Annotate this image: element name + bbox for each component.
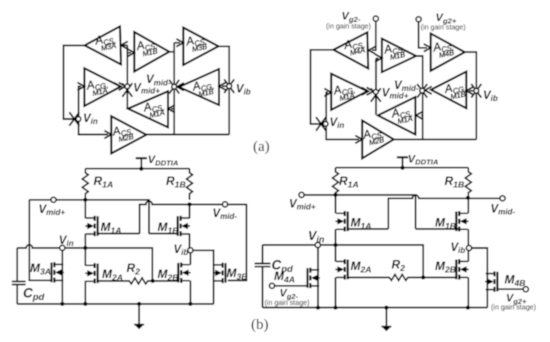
label amp ACS,M1A (142, 98, 167, 120)
supply VDDTIA (136, 158, 147, 168)
gate leads M1A M1B (348, 228, 459, 230)
terminal Vin (60, 245, 65, 250)
terminal Vmid+ (299, 192, 304, 197)
node Vin (323, 122, 328, 127)
junction Vin (83, 246, 87, 250)
node Vmid+ crossing (371, 88, 381, 102)
gnd stem (138, 304, 140, 325)
arrowhead into M3A (121, 42, 127, 49)
junction Vmid+ (334, 193, 338, 197)
amp A_CS,M1B triangle (382, 39, 416, 73)
label amp ACS,M1A (390, 104, 415, 126)
wire M4A output to Vin (311, 50, 334, 124)
M2A gate lead to R2 (348, 276, 386, 278)
junction Vmid- (188, 202, 192, 206)
wire Vmid- vertical (173, 43, 175, 135)
transistor M2B (178, 263, 190, 283)
ground (381, 327, 391, 331)
wire M3A output to Vin (64, 45, 85, 119)
terminal Vg2+ (416, 17, 421, 22)
node Vin crossing (316, 117, 326, 131)
wire Vmid- with hop (388, 195, 468, 229)
M4A gate lead to Vg2- (275, 285, 309, 287)
node Vmid+ crossing (122, 83, 132, 97)
label amp ACS,M2B (111, 122, 136, 144)
M3A leads (61, 248, 63, 304)
svg-text:(in gain stage): (in gain stage) (421, 24, 466, 32)
svg-text:(b): (b) (251, 317, 269, 333)
M2B verticals (467, 250, 469, 307)
gate leads M1A M1B (98, 233, 178, 235)
junction rail M2A (334, 306, 338, 310)
bottom rail (17, 303, 213, 305)
arrowhead into M1Bcg (219, 83, 225, 90)
gnd stem (385, 308, 387, 327)
junction rail M2B (188, 302, 192, 306)
wire M2B output (146, 134, 229, 136)
amp A_CS,M1A triangle (378, 97, 416, 135)
Vmid- wire (468, 197, 500, 199)
Vib wire to M3B (193, 250, 214, 304)
wire Vin drop to M2B input (326, 124, 359, 139)
transistor M2A (335, 259, 347, 279)
junction VDD rail (401, 166, 405, 170)
wire M1B output to Vmid- vertical (416, 56, 423, 139)
label amp ACG,M1A (332, 81, 357, 104)
terminal Vg2- (373, 16, 378, 21)
terminal Vib (466, 245, 471, 250)
resistor R2 (386, 274, 413, 280)
wire Vmid+ (29, 200, 149, 234)
amp A_CS,M1A triangle (128, 91, 168, 127)
transistor M1A (335, 211, 347, 231)
node Vin (76, 117, 81, 122)
amp A_CS,M4A triangle (334, 32, 369, 68)
resistor R1B (465, 168, 471, 199)
Vib wire to M4B (471, 248, 488, 308)
node Vib crossing (224, 79, 234, 93)
terminal circles (269, 192, 528, 292)
M2A verticals (335, 245, 337, 308)
R2 right to M2B gate (153, 280, 178, 282)
label amp ACS,M3A (93, 31, 118, 53)
node Vmid- crossing (417, 84, 427, 98)
M3B gate lead and vertical to Vmid- (228, 204, 247, 281)
label amp ACS,M1B (382, 40, 407, 62)
wire arrow into M1Bcg base from Vib (469, 90, 476, 92)
ground (134, 325, 144, 329)
Vin wire (263, 245, 424, 278)
wire Vin riser to M1A input (79, 86, 81, 119)
arrowhead into M1Acs (168, 105, 174, 112)
label amp ACS,M2B (361, 126, 386, 148)
junction rail M2A (83, 302, 87, 306)
node Vmid- (420, 88, 425, 93)
arrowhead out of M1Bcg apex (177, 83, 183, 90)
M2A gate lead to R2 (98, 280, 126, 282)
label amp ACG,M1B (443, 80, 468, 103)
terminal Vmid+ (51, 197, 56, 202)
wire arrow into M3A (123, 44, 127, 46)
M1B vertical (189, 204, 191, 250)
node Vmid- (172, 84, 177, 89)
wire arrow into M1Bcg base from Vib (222, 85, 229, 87)
amp A_CG,M1A triangle (84, 68, 120, 106)
svg-text:(in gain stage): (in gain stage) (326, 23, 371, 31)
labels (23, 154, 248, 303)
label amp ACS,M1B (135, 37, 160, 59)
transistor M2B (456, 259, 468, 279)
wire M2B output (394, 138, 477, 140)
label amp ACS,M3B (184, 32, 209, 54)
arrowhead into M2B (356, 136, 362, 143)
transistor M3B (213, 263, 225, 283)
arrowhead into M2B (105, 131, 111, 138)
node circles (323, 16, 478, 126)
M2B verticals (189, 253, 191, 304)
bottom rail (263, 307, 488, 309)
transistor M1A (85, 216, 97, 236)
wire Vin drop to M2B input (79, 119, 108, 135)
arrowhead out of M1Bcg apex (425, 87, 431, 94)
wire arrow into M3B (174, 42, 180, 44)
wire arrow into M1Bcs and Vmid+ vertical (376, 58, 379, 114)
junction dots (316, 166, 470, 310)
wire node Vmid+ vertical (126, 45, 128, 108)
arrowhead into M1Bcs (376, 55, 382, 62)
node Vin crossing (69, 112, 79, 126)
arrowhead into M1Bcg (466, 87, 472, 94)
wire arrow into M1B (127, 52, 131, 54)
amp A_CS,M1B triangle (134, 32, 169, 72)
amp A_CS,M4B triangle (431, 34, 465, 71)
node Vmid- crossing (169, 80, 179, 94)
wire Vmid+ (304, 195, 416, 229)
node labels (330, 11, 498, 131)
terminal circles (51, 197, 228, 253)
M2A verticals (84, 248, 86, 304)
VDD rail (336, 167, 469, 169)
label amp ACG,M1B (191, 77, 216, 100)
M4A leads (317, 245, 319, 308)
arrowhead into M4B (424, 44, 430, 51)
arrowhead into M3B (177, 39, 183, 46)
junction Vmid- (466, 196, 470, 200)
junction Vmid+ (83, 198, 87, 202)
resistor R1B (187, 169, 193, 200)
wire arrow into M1A_cs base (171, 108, 174, 110)
terminal Vmid- (500, 196, 505, 201)
wire M1B output to vertical (169, 51, 174, 53)
wire Vmid- with hop (140, 201, 190, 233)
node Vib (227, 84, 232, 89)
transistor M2A (85, 263, 97, 283)
svg-text:(a): (a) (253, 139, 270, 155)
amp A_CG,M1B triangle (431, 72, 466, 109)
junction rail M2B (466, 306, 470, 310)
amp A_CG,M1B triangle (179, 69, 219, 105)
M1A vertical (335, 229, 337, 245)
wire Vg2+ down to M4B input (419, 22, 427, 48)
node Vib crossing (471, 84, 481, 98)
terminal Vg2+ (523, 287, 528, 292)
transistor M1B (456, 211, 468, 231)
node circles (76, 84, 232, 122)
M3A gate vertical (29, 200, 51, 280)
terminal Vg2- (269, 283, 274, 288)
arrowhead into M1Acg (325, 89, 331, 96)
transistor M3A (52, 262, 64, 282)
VDD rail (85, 168, 189, 170)
label amp ACS,M4B (431, 38, 456, 60)
label amp ACS,M4A (342, 36, 367, 58)
Cpd (12, 248, 26, 304)
amp A_CS,M2B triangle (111, 116, 146, 153)
wire Vg2- down to M4A input (372, 21, 376, 50)
amp labels (85, 31, 216, 144)
amp labels (332, 36, 468, 148)
resistor R1A (333, 168, 339, 199)
resistor R2 (126, 278, 153, 284)
terminal Vin (315, 242, 320, 247)
Cpd (255, 245, 271, 308)
junction dots (60, 167, 192, 306)
junction R2 gate M2B (151, 279, 155, 283)
Vmid- wire (190, 203, 247, 205)
arrowhead into M4A (369, 47, 375, 54)
amp A_CS,M3B triangle (183, 28, 218, 65)
node Vmid+ (125, 84, 130, 89)
M1A source down to Vin (84, 234, 86, 248)
R2 right to M2B gate (413, 276, 456, 278)
svg-text:(in gain stage): (in gain stage) (265, 299, 310, 307)
junction rail M3A (60, 302, 64, 306)
M4B gate lead to Vg2+ (498, 288, 523, 290)
resistor R1A (82, 169, 88, 200)
label amp ACG,M1A (85, 76, 110, 99)
transistor M1B (178, 216, 190, 236)
amp A_CS,M3A triangle (85, 26, 121, 64)
junction VDD rail (139, 167, 143, 171)
node Vmid+ (373, 90, 378, 95)
arrowhead into M1B (128, 49, 134, 56)
junction rail ground (137, 302, 141, 306)
junction rail M4A (316, 306, 320, 310)
labels (272, 154, 527, 306)
arrowhead into M1Acg (78, 83, 84, 90)
amp A_CG,M1A triangle (331, 74, 367, 110)
wire M4B output to Vib (465, 52, 477, 139)
double chevrons into Vmid+ (114, 83, 120, 90)
terminal Vib (188, 248, 193, 253)
node Vib (474, 88, 479, 93)
transistor M4B (485, 271, 497, 291)
arrowhead into M1Acs (416, 112, 422, 119)
junction rail ground (384, 306, 388, 310)
junction Vin (334, 243, 338, 247)
wire Vin riser to M1A input (326, 92, 328, 124)
svg-text:(in gain stage): (in gain stage) (491, 303, 536, 311)
wire arrow into M1A_cs base (421, 114, 423, 116)
amp A_CS,M2B triangle (362, 121, 394, 159)
Vin wire with hop (17, 245, 152, 281)
wire M3B output to Vib (218, 46, 229, 134)
terminal Vmid- (222, 202, 227, 207)
M1B vertical (467, 198, 469, 248)
double chevrons into Vmid+ (362, 88, 368, 95)
transistor M4A (308, 268, 320, 288)
node labels (83, 74, 251, 126)
junction R2 gate M2B (421, 275, 425, 279)
supply VDDTIA (397, 157, 408, 167)
